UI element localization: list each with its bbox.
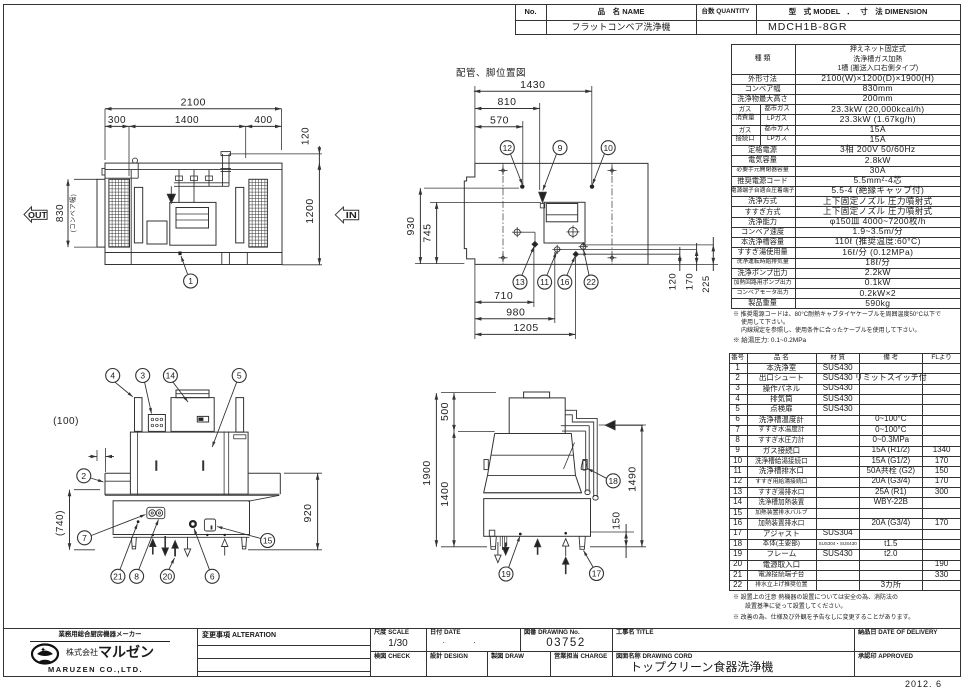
plan view: center unit	[170, 202, 216, 245]
callout 4	[106, 369, 120, 383]
dim 930	[419, 188, 421, 264]
callout 13	[513, 275, 527, 289]
plan view: handle circle	[133, 158, 138, 163]
dim 745	[436, 202, 438, 263]
dim 1900	[435, 393, 437, 547]
IN arrow	[335, 207, 358, 223]
dim 500	[453, 393, 455, 431]
piping: target 22 circle-plus	[581, 244, 586, 249]
side: flow arrow	[606, 421, 616, 430]
plan view: machine body	[105, 163, 282, 264]
spec table	[731, 44, 962, 309]
svg-text:IN: IN	[346, 210, 357, 220]
plan view: piping	[178, 170, 180, 203]
svg-text:13: 13	[515, 277, 525, 287]
piping: leg marks	[499, 170, 508, 172]
callout 15	[261, 534, 275, 548]
piping: centerlines	[502, 163, 504, 264]
side: chute diagonal 18	[564, 443, 575, 470]
svg-text:3: 3	[140, 371, 145, 381]
svg-text:1430: 1430	[520, 79, 545, 91]
spec notes	[733, 311, 961, 319]
svg-text:10: 10	[603, 143, 613, 153]
svg-text:710: 710	[494, 290, 513, 302]
dim 225 (drain)	[712, 237, 714, 271]
svg-text:810: 810	[497, 96, 516, 108]
dim 1200 right	[318, 163, 320, 265]
svg-text:2100: 2100	[181, 97, 206, 109]
header table	[515, 4, 961, 35]
plan view: right conveyor hatch	[249, 179, 268, 247]
callout 12	[500, 141, 514, 155]
svg-text:配管、脚位置図: 配管、脚位置図	[456, 67, 526, 79]
svg-text:1900: 1900	[421, 460, 433, 485]
svg-text:18: 18	[608, 476, 618, 486]
piping: extension lines top	[474, 86, 476, 163]
callout 1	[184, 274, 198, 288]
svg-text:22: 22	[586, 277, 596, 287]
svg-text:(740): (740)	[55, 510, 66, 536]
svg-text:17: 17	[592, 569, 602, 579]
parts table	[729, 353, 962, 591]
dim (740)	[69, 490, 71, 550]
svg-text:1490: 1490	[627, 466, 639, 491]
plan view: right slot	[236, 187, 244, 243]
dim 170 (drain)	[696, 243, 698, 271]
svg-text:11: 11	[540, 277, 549, 287]
svg-text:8: 8	[134, 571, 139, 581]
side: legs	[490, 536, 496, 549]
piping: gas inlet dot 12	[520, 184, 524, 188]
svg-text:300: 300	[108, 115, 126, 126]
front: tunnel body	[130, 432, 248, 494]
dim 980	[475, 318, 555, 320]
front: heater box 14	[171, 398, 214, 432]
piping: big circle-plus	[569, 227, 578, 236]
piping: target 11 circle-plus	[555, 247, 560, 252]
svg-text:OUT: OUT	[28, 210, 48, 220]
dim 300/1400/400	[105, 125, 282, 127]
side: drain box	[489, 530, 495, 536]
svg-text:745: 745	[422, 223, 434, 242]
front: exhaust duct left	[135, 398, 143, 432]
piping: triangle 9	[539, 192, 547, 202]
svg-text:1400: 1400	[439, 481, 451, 506]
plan view: entrance table	[97, 179, 105, 247]
svg-text:1: 1	[188, 276, 193, 286]
svg-text:5: 5	[237, 371, 242, 381]
plan view: valve triangle	[167, 194, 175, 203]
dim 2100	[105, 108, 282, 110]
callout 22	[584, 275, 598, 289]
front: supply arrows	[150, 539, 156, 547]
piping: dot 10	[590, 184, 594, 188]
svg-text:12: 12	[503, 143, 513, 153]
front: exit table	[248, 472, 280, 474]
plan view: left conveyor hatch	[109, 179, 130, 247]
dim 1490	[641, 425, 643, 547]
svg-text:120: 120	[668, 273, 679, 290]
callout 3	[136, 369, 150, 383]
svg-text:9: 9	[558, 143, 563, 153]
svg-text:1205: 1205	[513, 322, 538, 334]
callout 5	[232, 369, 246, 383]
svg-text:20: 20	[163, 571, 173, 581]
front: control panel 3	[148, 415, 165, 432]
svg-text:6: 6	[210, 571, 215, 581]
callout 9	[553, 141, 567, 155]
svg-text:570: 570	[490, 115, 509, 127]
front: entrance table	[105, 472, 130, 474]
svg-text:(100): (100)	[53, 416, 79, 427]
callout 21	[111, 569, 125, 583]
dim 710	[475, 301, 534, 303]
dim 120 (drain)	[679, 247, 681, 271]
callout 18	[606, 474, 620, 488]
svg-text:120: 120	[301, 127, 312, 145]
callout 16	[558, 275, 572, 289]
parts notes	[733, 594, 961, 602]
callout 17	[590, 567, 604, 581]
svg-text:170: 170	[684, 273, 695, 290]
side: dot 19 target	[519, 533, 522, 536]
dim 830 conveyor width	[67, 179, 69, 247]
side: exit chute pipes	[565, 409, 575, 411]
svg-text:830: 830	[55, 204, 66, 222]
plan view: drain dot	[178, 252, 181, 256]
svg-text:980: 980	[506, 307, 525, 319]
callout 19	[499, 567, 513, 581]
dim 810	[475, 108, 540, 110]
plan view: left edge tab	[102, 168, 105, 175]
piping: left circle-plus	[514, 229, 520, 235]
callout 11	[538, 275, 552, 289]
dim 150	[625, 524, 627, 558]
title block	[3, 628, 961, 629]
callout 14	[163, 369, 177, 383]
svg-text:150: 150	[612, 511, 623, 529]
dim 570	[475, 126, 523, 128]
svg-text:7: 7	[82, 533, 87, 543]
callout 7	[78, 531, 92, 545]
callout 20	[160, 569, 174, 583]
plan view: left end block	[105, 177, 138, 179]
front: legs	[131, 537, 136, 549]
callout 2	[77, 469, 91, 483]
piping: extension lines bottom	[474, 264, 476, 339]
piping: target 16 diamond	[573, 252, 578, 257]
dim 1205	[475, 333, 576, 335]
dim 1430	[474, 90, 592, 92]
svg-text:(コンベア幅): (コンベア幅)	[69, 194, 77, 233]
piping: footprint outline	[464, 163, 648, 264]
front: base cabinet	[113, 501, 249, 535]
front: drain ring 6	[189, 520, 197, 528]
piping: target 13 diamond	[532, 242, 538, 248]
svg-text:4: 4	[110, 371, 115, 381]
svg-text:21: 21	[113, 571, 123, 581]
svg-text:920: 920	[302, 503, 314, 522]
plan view: small box left of unit	[147, 221, 167, 244]
side: pipes below	[499, 536, 501, 546]
side: handles	[484, 460, 488, 470]
svg-text:14: 14	[166, 371, 176, 381]
callout 10	[601, 141, 615, 155]
svg-text:15: 15	[263, 536, 273, 546]
svg-text:930: 930	[405, 216, 417, 235]
dim 1400	[453, 431, 455, 546]
side: hood	[484, 434, 582, 493]
svg-text:400: 400	[254, 115, 272, 126]
side: base cabinet	[484, 499, 591, 537]
svg-text:225: 225	[701, 275, 712, 292]
piping: heater box	[544, 202, 585, 243]
front: right post	[236, 398, 244, 433]
callout 8	[130, 569, 144, 583]
dim 120 right	[229, 153, 322, 155]
dim 920	[317, 473, 319, 550]
piping: drain lines right	[583, 244, 713, 246]
front: dot 21 target	[137, 520, 140, 523]
side: heater box top	[509, 398, 565, 434]
front: box 15	[204, 519, 215, 531]
maruzen logo	[25, 630, 175, 640]
svg-text:1200: 1200	[304, 198, 316, 223]
svg-text:2: 2	[81, 471, 86, 481]
svg-text:16: 16	[560, 277, 570, 287]
plan view: bottom band	[105, 252, 282, 254]
OUT arrow	[24, 207, 47, 222]
front: door handles	[155, 460, 157, 470]
svg-text:500: 500	[439, 402, 451, 421]
svg-text:19: 19	[501, 569, 511, 579]
front: table frame line	[105, 493, 279, 495]
front: thermometer gauges 7	[147, 507, 165, 518]
callout 6	[205, 569, 219, 583]
svg-text:1400: 1400	[175, 115, 199, 126]
plan view: left slot	[134, 187, 142, 243]
